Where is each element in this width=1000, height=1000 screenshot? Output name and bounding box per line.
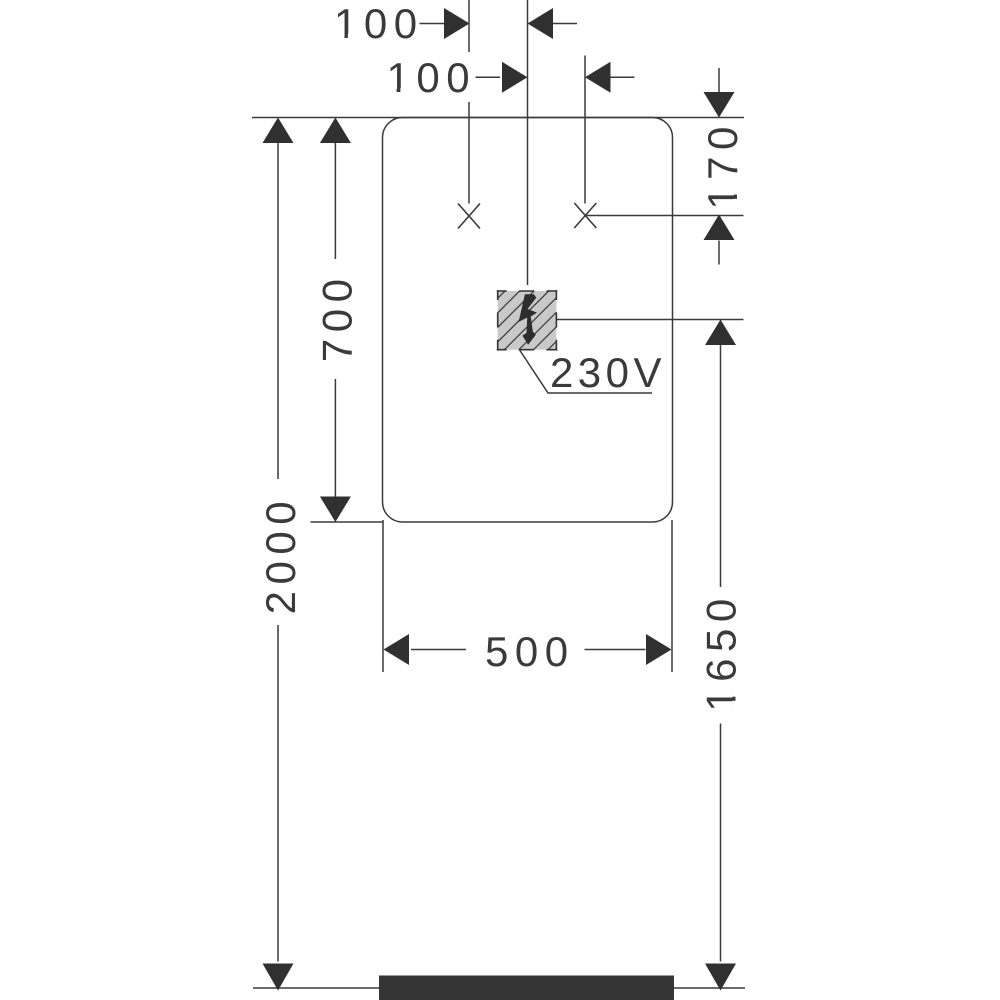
socket reference line: [557, 319, 744, 321]
floor plinth bar: [379, 976, 674, 1000]
arrow 500 pointing left: [384, 634, 410, 665]
dim 100 top left tail: [420, 23, 445, 25]
arrow 700 top pointing up: [320, 118, 351, 144]
dim 170 line upper: [718, 68, 720, 92]
arrow 170 top pointing down: [704, 92, 735, 118]
dim 1650 line upper: [720, 345, 722, 587]
arrow 100 second pointing right: [502, 62, 528, 93]
dim 500 right tail: [585, 649, 646, 651]
leader line to 230V label: [517, 346, 652, 393]
arrow 2000 bottom pointing down: [263, 964, 294, 991]
svg-text:2000: 2000: [257, 495, 304, 614]
left drill axis line upper: [468, 0, 470, 52]
bottom tick line left of cabinet: [311, 521, 384, 523]
centre vertical line: [527, 0, 529, 285]
arrow 500 pointing right: [646, 634, 672, 665]
svg-text:230V: 230V: [550, 349, 666, 396]
arrow 170 bottom pointing up: [704, 215, 735, 241]
arrow 100 second pointing left: [585, 62, 611, 93]
wall top line: [252, 117, 744, 119]
arrow 1650 top pointing up: [705, 320, 736, 346]
leader line to 230V label casing: [516, 344, 531, 367]
drill cross left: [458, 204, 480, 229]
dim 500 right extension line: [671, 520, 673, 672]
cross reference line to right: [585, 215, 744, 217]
mirror cabinet outline: [383, 118, 673, 523]
dim 2000 line upper: [277, 142, 279, 479]
dimension arrows: [263, 8, 737, 991]
svg-text:700: 700: [314, 273, 361, 363]
arrow 700 bottom pointing down: [320, 497, 351, 523]
dim 100 second right tail: [611, 76, 635, 78]
dim 700 line upper: [334, 142, 336, 259]
arrow 2000 top pointing up: [263, 118, 294, 144]
dim 100 top right tail: [553, 23, 577, 25]
dim 1650 line lower: [720, 724, 722, 962]
svg-text:1650: 1650: [698, 592, 745, 711]
socket symbol hatched square: [497, 290, 557, 350]
arrow 100 top pointing left: [528, 8, 554, 39]
dim 500 left extension line: [382, 520, 384, 672]
serif trim masks for digit 1: [336, 34, 737, 709]
dim 100 second left tail: [476, 76, 501, 78]
dim 700 line lower: [334, 379, 336, 497]
svg-text:170: 170: [699, 120, 746, 210]
right drill axis line: [584, 56, 586, 204]
floor line: [253, 987, 745, 989]
left drill axis line lower: [468, 102, 470, 204]
dim 500 left tail: [411, 649, 466, 651]
svg-text:100: 100: [387, 54, 477, 101]
svg-text:100: 100: [334, 0, 424, 47]
socket symbol dashed border: [497, 290, 557, 350]
arrow 100 top pointing right: [444, 8, 470, 39]
dim 170 line lower: [718, 241, 720, 265]
dim 2000 line lower: [277, 625, 279, 962]
lightning bolt: [519, 294, 537, 345]
svg-text:500: 500: [485, 628, 575, 675]
arrow 1650 bottom pointing down: [705, 964, 736, 991]
drill cross right: [574, 203, 596, 228]
